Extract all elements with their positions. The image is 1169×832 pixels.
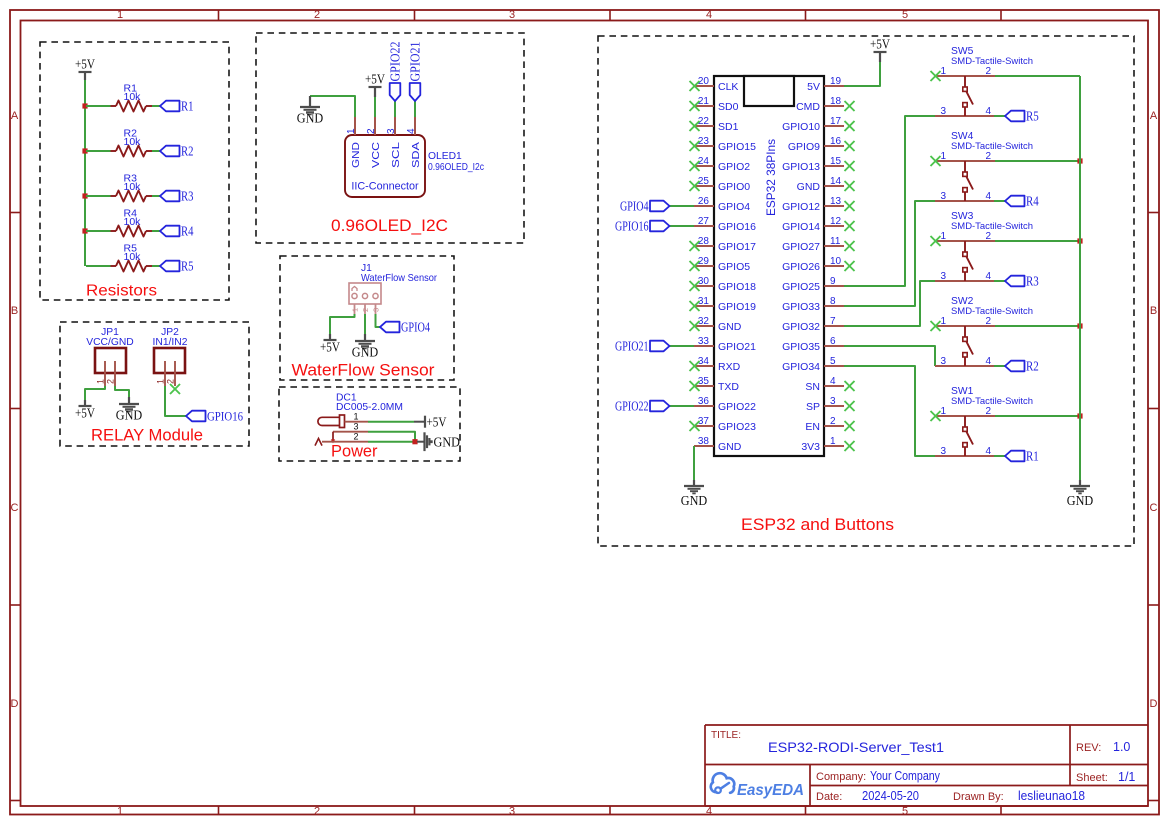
pin 3 J1 stub: [375, 304, 377, 314]
svg-text:3: 3: [941, 356, 947, 367]
pin 2 J1 stub: [364, 304, 366, 314]
junction node rail at SW4: [1077, 158, 1082, 163]
resistor R4 10k: [111, 208, 153, 237]
svg-text:GPIO17: GPIO17: [718, 241, 756, 253]
pin 6 ESP32 GPIO35: [782, 336, 844, 353]
svg-text:R5: R5: [181, 259, 194, 274]
connector OLED1 IIC-Connector body: [345, 135, 425, 197]
svg-text:1/1: 1/1: [1118, 770, 1135, 784]
svg-text:REV:: REV:: [1076, 742, 1101, 754]
frame column ticks: [219, 10, 1002, 815]
svg-text:2: 2: [314, 9, 320, 21]
no-connect X ESP32 pin 4: [845, 381, 855, 391]
pin 14 ESP32 GND: [797, 176, 844, 193]
svg-text:0.96OLED_I2C: 0.96OLED_I2C: [331, 216, 448, 235]
wire right rail: [1079, 76, 1081, 480]
svg-text:GPIO22: GPIO22: [388, 42, 403, 82]
svg-text:+5V: +5V: [320, 340, 340, 355]
switch SW5 SMD-Tactile-Switch: [935, 46, 1033, 117]
svg-text:GPIO21: GPIO21: [615, 339, 649, 354]
no-connect X ESP32 pin 35: [690, 381, 700, 391]
svg-text:13: 13: [830, 196, 842, 207]
svg-text:SD0: SD0: [718, 101, 739, 113]
pin 36 ESP32 GPIO22: [694, 396, 756, 413]
no-connect X ESP32 pin 25: [690, 181, 700, 191]
label JP1 VCC/GND: [86, 327, 133, 348]
svg-text:GPIO12: GPIO12: [782, 201, 820, 213]
svg-text:EN: EN: [805, 421, 820, 433]
svg-text:ESP32 38PIns: ESP32 38PIns: [766, 139, 778, 216]
wire J1 pin1 to +5V: [330, 314, 355, 334]
svg-text:2: 2: [986, 231, 992, 242]
svg-text:R1: R1: [181, 99, 194, 114]
wire ESP32 pin 5 GPIO34 to switch: [844, 366, 936, 456]
wire J1 pin2 to GND: [364, 314, 366, 334]
switch SW1 SMD-Tactile-Switch: [935, 386, 1033, 457]
svg-text:2: 2: [830, 416, 836, 427]
svg-text:Company:: Company:: [816, 771, 866, 783]
svg-text:3V3: 3V3: [801, 441, 820, 453]
svg-text:1: 1: [346, 128, 357, 134]
title block Sheet: [1076, 770, 1135, 784]
svg-text:VCC: VCC: [371, 141, 382, 168]
pin 26 ESP32 GPIO4: [694, 196, 750, 213]
net flag GPIO21 (ESP32 left): [615, 339, 670, 354]
no-connect X SW2 pin1: [931, 321, 941, 331]
IC U1 ESP32 38Pins body: [714, 76, 824, 456]
net flag R2: [160, 144, 194, 159]
no-connect X ESP32 pin 11: [845, 241, 855, 251]
svg-text:1: 1: [941, 66, 947, 77]
pin 19 ESP32 5V: [807, 76, 844, 93]
switch SW3 SMD-Tactile-Switch: [935, 211, 1033, 282]
pin 9 ESP32 GPIO25: [782, 276, 844, 293]
pin 10 ESP32 GPIO26: [782, 256, 844, 273]
no-connect X JP2 pin2: [170, 384, 180, 394]
svg-text:33: 33: [698, 336, 710, 347]
svg-text:C: C: [11, 502, 19, 514]
wire ESP32 pin 7 GPIO32 to switch: [844, 281, 936, 326]
svg-text:2: 2: [166, 379, 176, 384]
svg-text:GPIO34: GPIO34: [782, 361, 820, 373]
svg-text:SCL: SCL: [391, 142, 402, 168]
svg-text:17: 17: [830, 116, 842, 127]
pin 30 ESP32 GPIO18: [694, 276, 756, 293]
svg-text:GND: GND: [718, 321, 742, 333]
svg-text:GPIO0: GPIO0: [718, 181, 750, 193]
resistor R3 10k: [111, 173, 153, 202]
wire ESP32 pin 33 to GPIO21: [670, 345, 695, 347]
pin 31 ESP32 GPIO19: [694, 296, 756, 313]
svg-text:GPIO9: GPIO9: [788, 141, 820, 153]
wire to resistor R4: [86, 230, 111, 232]
resistor R2 10k: [111, 128, 153, 157]
svg-text:0.96OLED_I2c: 0.96OLED_I2c: [428, 162, 484, 173]
wire SW4 pin4 to net flag: [994, 200, 1005, 202]
pin 12 ESP32 GPIO14: [782, 216, 844, 233]
no-connect X ESP32 pin 23: [690, 141, 700, 151]
svg-text:R2: R2: [1026, 359, 1039, 374]
ground GND (RELAY): [116, 397, 143, 423]
svg-text:CMD: CMD: [796, 101, 820, 113]
pin 1 OLED1 stub: [354, 117, 356, 135]
wire ESP32 pin 9 GPIO25 to switch: [844, 116, 936, 286]
wire SW1 pin2 to rail: [995, 415, 1080, 417]
pin 8 ESP32 GPIO33: [782, 296, 844, 313]
svg-text:GPIO19: GPIO19: [718, 301, 756, 313]
power +5V (WaterFlow): [320, 334, 340, 355]
no-connect X ESP32 pin 37: [690, 421, 700, 431]
power +5V (OLED): [365, 72, 385, 98]
frame row ticks: [10, 213, 1160, 801]
pin 38 ESP32 GND: [694, 436, 742, 453]
pin numbers J1: [351, 308, 381, 312]
no-connect X ESP32 pin 32: [690, 321, 700, 331]
pin 34 ESP32 RXD: [694, 356, 741, 373]
svg-text:26: 26: [698, 196, 710, 207]
svg-text:3: 3: [830, 396, 836, 407]
svg-text:2024-05-20: 2024-05-20: [862, 789, 919, 803]
svg-text:Sheet:: Sheet:: [1076, 772, 1108, 784]
svg-text:3: 3: [372, 308, 381, 312]
wire to resistor R3: [86, 195, 111, 197]
svg-text:38: 38: [698, 436, 710, 447]
junction node (Power): [412, 439, 417, 444]
label JP2 IN1/IN2: [153, 327, 188, 348]
svg-text:SN: SN: [805, 381, 820, 393]
svg-text:TITLE:: TITLE:: [711, 730, 741, 741]
svg-text:R4: R4: [1026, 194, 1039, 209]
wire +5V bus: [84, 80, 86, 266]
svg-text:GPIO32: GPIO32: [782, 321, 820, 333]
svg-text:16: 16: [830, 136, 842, 147]
svg-text:10k: 10k: [124, 91, 142, 103]
wire ESP32 pin 26 to GPIO4: [670, 205, 695, 207]
svg-text:ESP32-RODI-Server_Test1: ESP32-RODI-Server_Test1: [768, 739, 944, 755]
net flag GPIO4 (ESP32 left): [620, 199, 670, 214]
svg-text:GPIO21: GPIO21: [718, 341, 756, 353]
junction node rail at SW1: [1077, 413, 1082, 418]
svg-text:SMD-Tactile-Switch: SMD-Tactile-Switch: [951, 56, 1033, 67]
net flag R2 (switch SW2): [1005, 359, 1039, 374]
Resistors group dashed box: [40, 42, 229, 300]
svg-text:8: 8: [830, 296, 836, 307]
label OLED1 0.96OLED_I2c: [428, 151, 484, 173]
svg-text:GND: GND: [352, 345, 379, 360]
no-connect X ESP32 pin 24: [690, 161, 700, 171]
svg-text:1.0: 1.0: [1113, 740, 1130, 754]
svg-text:+5V: +5V: [75, 57, 95, 72]
svg-text:GPIO16: GPIO16: [718, 221, 756, 233]
pin 21 ESP32 SD0: [694, 96, 739, 113]
svg-text:4: 4: [986, 106, 992, 117]
wire SW5 pin4 to net flag: [994, 115, 1005, 117]
pin 2 DC1 sleeve: [315, 432, 368, 446]
svg-text:12: 12: [830, 216, 842, 227]
wire SW3 pin2 to rail: [995, 240, 1080, 242]
pin 27 ESP32 GPIO16: [694, 216, 756, 233]
pin 3 OLED1 stub: [394, 117, 396, 135]
net flag R1: [160, 99, 194, 114]
svg-text:2: 2: [986, 316, 992, 327]
svg-text:+5V: +5V: [427, 414, 447, 429]
pin 13 ESP32 GPIO12: [782, 196, 844, 213]
svg-text:A: A: [11, 110, 19, 122]
pin 2 JP2: [166, 361, 176, 386]
svg-text:R3: R3: [181, 189, 194, 204]
svg-text:GPIO10: GPIO10: [782, 121, 820, 133]
no-connect X ESP32 pin 3: [845, 401, 855, 411]
title block borders: [705, 725, 1148, 806]
no-connect X ESP32 pin 10: [845, 261, 855, 271]
no-connect X ESP32 pin 28: [690, 241, 700, 251]
net flag R3: [160, 189, 194, 204]
pin 11 ESP32 GPIO27: [782, 236, 844, 253]
svg-text:+5V: +5V: [365, 72, 385, 87]
svg-text:GPIO33: GPIO33: [782, 301, 820, 313]
wire SW2 pin4 to net flag: [994, 365, 1005, 367]
ESP32 top notch: [744, 76, 794, 106]
svg-text:GPIO27: GPIO27: [782, 241, 820, 253]
wire JP1 pin1 to +5V: [85, 386, 105, 400]
svg-text:5: 5: [902, 806, 908, 818]
wire JP2 pin1 to GPIO16: [165, 386, 186, 416]
svg-text:SP: SP: [806, 401, 820, 413]
no-connect X SW1 pin1: [931, 411, 941, 421]
svg-text:GND: GND: [681, 493, 708, 508]
svg-text:GPIO22: GPIO22: [718, 401, 756, 413]
no-connect X ESP32 pin 20: [690, 81, 700, 91]
net flag GPIO22 (ESP32 left): [615, 399, 670, 414]
svg-text:2: 2: [986, 151, 992, 162]
svg-text:R1: R1: [1026, 449, 1039, 464]
svg-text:D: D: [11, 698, 19, 710]
0.96OLED_I2C group dashed box: [256, 33, 524, 243]
no-connect X SW3 pin1: [931, 236, 941, 246]
svg-text:4: 4: [830, 376, 836, 387]
pin 1 JP2: [156, 361, 166, 386]
svg-text:SMD-Tactile-Switch: SMD-Tactile-Switch: [951, 306, 1033, 317]
svg-text:SD1: SD1: [718, 121, 739, 133]
svg-text:SMD-Tactile-Switch: SMD-Tactile-Switch: [951, 221, 1033, 232]
wire ESP32 pin 6 GPIO35 to switch: [844, 346, 935, 366]
svg-text:4: 4: [986, 191, 992, 202]
switch SW2 SMD-Tactile-Switch: [935, 296, 1033, 367]
pin 22 ESP32 SD1: [694, 116, 739, 133]
svg-text:SMD-Tactile-Switch: SMD-Tactile-Switch: [951, 141, 1033, 152]
pin 4 OLED1 stub: [414, 117, 416, 135]
svg-text:Power: Power: [331, 442, 378, 461]
net flag GPIO4 (WaterFlow): [380, 320, 430, 335]
svg-text:RXD: RXD: [718, 361, 741, 373]
svg-text:2: 2: [314, 806, 320, 818]
ground GND (Power, rotated): [417, 432, 460, 451]
svg-text:1: 1: [96, 379, 106, 384]
wire OLED pin2 to +5V: [374, 96, 376, 117]
svg-text:1: 1: [156, 379, 166, 384]
pin 18 ESP32 CMD: [796, 96, 844, 113]
wire resistor R4 to net flag: [152, 230, 160, 232]
connector DC1 barrel jack body: [318, 415, 345, 428]
connector J1 pads: [352, 287, 378, 299]
svg-text:2: 2: [353, 432, 358, 442]
junction node row R1: [82, 103, 87, 108]
svg-text:GND: GND: [116, 408, 143, 423]
svg-text:1: 1: [941, 316, 947, 327]
svg-text:GPIO4: GPIO4: [718, 201, 750, 213]
wire J1 pin3 to GPIO4: [376, 314, 381, 327]
wire resistor R1 to net flag: [152, 105, 160, 107]
no-connect X ESP32 pin 13: [845, 201, 855, 211]
svg-text:Your Company: Your Company: [870, 769, 941, 783]
svg-text:IIC-Connector: IIC-Connector: [351, 181, 419, 193]
wire DC1 pin1 to +5V: [368, 421, 414, 423]
svg-text:R4: R4: [181, 224, 194, 239]
svg-text:3: 3: [941, 271, 947, 282]
svg-text:GPIO18: GPIO18: [718, 281, 756, 293]
EasyEDA logo: [711, 773, 804, 799]
svg-text:3: 3: [509, 806, 515, 818]
connector J1 body: [349, 283, 381, 304]
svg-text:14: 14: [830, 176, 842, 187]
pin 16 ESP32 GPIO9: [788, 136, 844, 153]
wire SW2 pin2 to rail: [995, 325, 1080, 327]
pin 15 ESP32 GPIO13: [782, 156, 844, 173]
svg-text:A: A: [1150, 110, 1158, 122]
pin 2 JP1: [106, 361, 116, 386]
wire ESP32 pin 8 GPIO33 to switch: [844, 201, 936, 306]
switch SW4 SMD-Tactile-Switch: [935, 131, 1033, 202]
svg-text:27: 27: [698, 216, 710, 227]
svg-text:R3: R3: [1026, 274, 1039, 289]
svg-text:B: B: [11, 305, 18, 317]
pin 35 ESP32 TXD: [694, 376, 739, 393]
no-connect X ESP32 pin 15: [845, 161, 855, 171]
svg-text:3: 3: [509, 9, 515, 21]
svg-text:19: 19: [830, 76, 842, 87]
svg-text:10k: 10k: [124, 181, 142, 193]
svg-text:11: 11: [830, 236, 841, 247]
resistor R1 10k: [111, 83, 153, 112]
net flag R4: [160, 224, 194, 239]
svg-text:GPIO13: GPIO13: [782, 161, 820, 173]
pin 1 J1 stub: [354, 304, 356, 314]
pin 24 ESP32 GPIO2: [694, 156, 750, 173]
wire SW4 pin2 to rail: [995, 160, 1080, 162]
wire OLED pin4: [414, 101, 416, 117]
svg-text:C: C: [1150, 502, 1158, 514]
svg-text:GPIO23: GPIO23: [718, 421, 756, 433]
svg-text:GPIO22: GPIO22: [615, 399, 649, 414]
svg-text:3: 3: [941, 106, 947, 117]
svg-text:18: 18: [830, 96, 842, 107]
net flag GPIO22: [388, 42, 403, 102]
svg-text:6: 6: [830, 336, 836, 347]
pin 5 ESP32 GPIO34: [782, 356, 844, 373]
no-connect X SW5 pin1: [931, 71, 941, 81]
no-connect X ESP32 pin 34: [690, 361, 700, 371]
no-connect X ESP32 pin 18: [845, 101, 855, 111]
wire OLED pin1 to GND: [310, 96, 355, 117]
svg-text:GPIO2: GPIO2: [718, 161, 750, 173]
label DC1 DC005-2.0MM: [336, 393, 403, 414]
svg-text:+5V: +5V: [870, 37, 890, 52]
svg-text:5: 5: [830, 356, 836, 367]
pin 33 ESP32 GPIO21: [694, 336, 756, 353]
svg-text:GPIO4: GPIO4: [401, 320, 430, 335]
wire to resistor R1: [86, 105, 111, 107]
junction node rail at SW3: [1077, 238, 1082, 243]
svg-text:GPIO15: GPIO15: [718, 141, 756, 153]
svg-text:3: 3: [353, 422, 358, 432]
svg-text:4: 4: [986, 356, 992, 367]
pin 1 ESP32 3V3: [801, 436, 844, 453]
svg-text:R5: R5: [1026, 109, 1039, 124]
svg-text:CLK: CLK: [718, 81, 738, 93]
svg-text:15: 15: [830, 156, 842, 167]
ESP32 and Buttons group dashed box: [598, 36, 1134, 546]
wire SW1 pin4 to net flag: [994, 455, 1005, 457]
wire SW3 pin4 to net flag: [994, 280, 1005, 282]
svg-text:2: 2: [361, 308, 370, 312]
svg-text:GPIO35: GPIO35: [782, 341, 820, 353]
net flag GPIO16 (RELAY): [186, 409, 243, 424]
pin 1 DC1: [345, 412, 369, 422]
svg-text:10k: 10k: [124, 216, 142, 228]
svg-text:3: 3: [941, 446, 947, 457]
svg-text:GND: GND: [434, 434, 461, 449]
pin 28 ESP32 GPIO17: [694, 236, 756, 253]
wire to resistor R2: [86, 150, 111, 152]
pin 20 ESP32 CLK: [694, 76, 738, 93]
svg-text:2: 2: [986, 66, 992, 77]
svg-text:+5V: +5V: [75, 406, 95, 421]
svg-text:R2: R2: [181, 144, 194, 159]
no-connect X SW4 pin1: [931, 156, 941, 166]
connector JP2 body: [154, 348, 185, 373]
svg-text:GPIO25: GPIO25: [782, 281, 820, 293]
svg-text:GPIO16: GPIO16: [615, 219, 649, 234]
svg-text:OLED1: OLED1: [428, 151, 462, 162]
net flag GPIO21: [408, 42, 423, 102]
svg-text:GND: GND: [351, 142, 362, 168]
svg-text:GND: GND: [297, 111, 324, 126]
svg-text:SDA: SDA: [411, 142, 422, 168]
wire ESP32 pin 38 to GND: [693, 446, 695, 480]
svg-text:4: 4: [706, 9, 712, 21]
pin 3 DC1 switch contact: [331, 422, 368, 444]
net flag R5 (switch SW5): [1005, 109, 1039, 124]
svg-text:10: 10: [830, 256, 842, 267]
pin 1 JP1: [96, 361, 106, 386]
no-connect X ESP32 pin 31: [690, 301, 700, 311]
svg-text:1: 1: [941, 231, 947, 242]
power +5V (RELAY): [75, 400, 95, 421]
net flag R4 (switch SW4): [1005, 194, 1039, 209]
svg-text:4: 4: [406, 128, 417, 134]
WaterFlow Sensor group dashed box: [280, 256, 454, 380]
no-connect X ESP32 pin 17: [845, 121, 855, 131]
wire ESP32 pin 36 to GPIO22: [670, 405, 695, 407]
svg-text:7: 7: [830, 316, 836, 327]
ground GND (ESP32): [681, 480, 708, 508]
svg-text:Resistors: Resistors: [86, 283, 157, 300]
wire SW5 pin2 to rail: [995, 75, 1080, 77]
wire resistor R5 to net flag: [152, 265, 160, 267]
svg-text:ESP32 and Buttons: ESP32 and Buttons: [741, 516, 894, 534]
svg-text:GPIO26: GPIO26: [782, 261, 820, 273]
no-connect X ESP32 pin 30: [690, 281, 700, 291]
